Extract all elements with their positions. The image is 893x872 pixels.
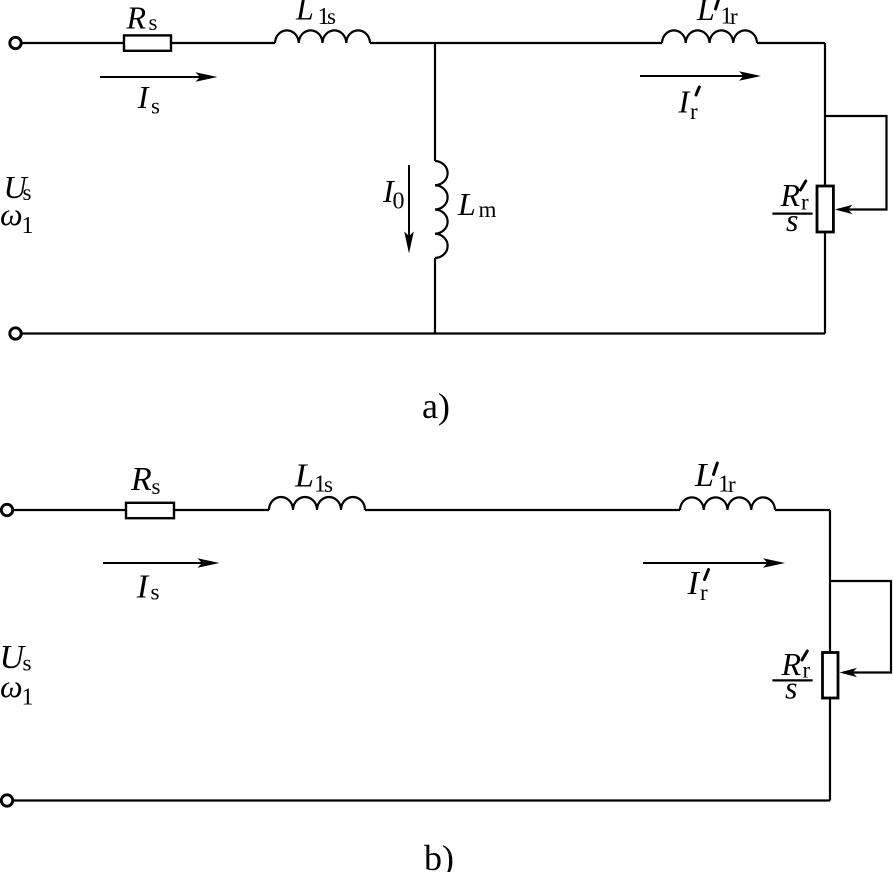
prime of R'_r (circuit a) xyxy=(801,181,806,190)
wire B top segment 4 xyxy=(775,509,830,511)
wire A top segment 1 xyxy=(22,42,124,44)
slider bracket wire (circuit a) xyxy=(825,116,887,210)
svg-text:0: 0 xyxy=(393,189,405,215)
wire B right branch upper xyxy=(829,510,831,653)
resistor R_s (circuit b) xyxy=(126,503,174,518)
arrowhead I_s (circuit b) xyxy=(198,558,220,568)
svg-text:b): b) xyxy=(424,838,454,872)
svg-text:ω: ω xyxy=(0,668,23,704)
prime of L'_1r (circuit b) xyxy=(714,463,718,475)
svg-text:s: s xyxy=(786,202,798,238)
svg-text:s: s xyxy=(151,94,160,119)
svg-text:s: s xyxy=(324,472,333,497)
svg-text:s: s xyxy=(23,180,32,205)
resistor R'_r/s (circuit a) xyxy=(817,186,833,232)
svg-text:r: r xyxy=(700,580,708,605)
current arrow I_s shaft (circuit b) xyxy=(103,562,213,564)
wire A middle branch lower xyxy=(434,258,436,334)
svg-text:L: L xyxy=(694,457,714,494)
inductor L_1s (circuit b) xyxy=(269,497,365,510)
current arrow I_s shaft (circuit a) xyxy=(100,76,213,78)
wire B top segment 2 xyxy=(174,509,269,511)
arrowhead slider (circuit b) xyxy=(839,668,857,677)
svg-text:s: s xyxy=(23,650,32,675)
svg-text:1: 1 xyxy=(22,213,34,239)
prime of I'_r (circuit b) xyxy=(705,570,709,580)
arrowhead slider (circuit a) xyxy=(835,205,853,214)
svg-text:I: I xyxy=(136,569,150,606)
svg-text:s: s xyxy=(327,4,336,29)
terminal B top-left xyxy=(1,504,12,515)
svg-text:I: I xyxy=(687,565,701,602)
wire A top segment 2 xyxy=(171,42,275,44)
current arrow I'_r shaft (circuit b) xyxy=(643,562,781,564)
current arrow I'_r shaft (circuit a) xyxy=(640,75,757,77)
svg-text:L: L xyxy=(696,0,715,27)
inductor L'_1r (circuit a) xyxy=(662,30,757,43)
svg-text:s: s xyxy=(785,670,797,706)
terminal A bottom-left xyxy=(10,328,21,339)
svg-text:R: R xyxy=(126,0,147,36)
svg-text:r: r xyxy=(728,472,736,497)
wire B right branch lower xyxy=(829,698,831,801)
arrowhead I_0 (circuit a) xyxy=(404,232,414,254)
fraction bar (circuit a) xyxy=(772,213,812,215)
svg-text:m: m xyxy=(479,197,497,222)
terminal A top-left xyxy=(10,37,21,48)
wire A bottom xyxy=(22,332,825,334)
svg-text:L: L xyxy=(294,458,314,495)
arrowhead I'_r (circuit a) xyxy=(739,71,761,81)
wire A top segment 4 xyxy=(757,42,825,44)
arrowhead I'_r (circuit b) xyxy=(763,558,785,568)
svg-text:1: 1 xyxy=(22,684,34,710)
inductor L'_1r (circuit b) xyxy=(680,497,775,510)
arrowhead I_s (circuit a) xyxy=(196,72,218,82)
wire B bottom xyxy=(13,799,830,801)
wire B top segment 3 xyxy=(365,509,680,511)
svg-text:ω: ω xyxy=(0,196,23,232)
svg-text:s: s xyxy=(151,580,160,605)
terminal B bottom-left xyxy=(1,795,12,806)
svg-text:L: L xyxy=(457,186,476,222)
svg-text:s: s xyxy=(149,10,158,35)
prime of I'_r (circuit a) xyxy=(696,87,699,95)
svg-text:r: r xyxy=(801,190,809,215)
svg-text:r: r xyxy=(803,658,811,683)
svg-text:I: I xyxy=(678,84,691,120)
svg-text:a): a) xyxy=(422,386,450,426)
svg-text:R: R xyxy=(130,461,152,498)
prime of R'_r (circuit b) xyxy=(802,651,807,660)
svg-text:r: r xyxy=(690,99,698,124)
inductor L_1s (circuit a) xyxy=(275,30,370,43)
wire A right branch upper xyxy=(824,43,826,186)
fraction bar (circuit b) xyxy=(772,679,812,681)
wire B top segment 1 xyxy=(13,509,126,511)
current arrow I_0 shaft (circuit a) xyxy=(408,165,410,249)
inductor L_m (circuit a) xyxy=(435,161,448,258)
resistor R'_r/s (circuit b) xyxy=(823,653,839,699)
wire A middle branch upper xyxy=(434,43,436,161)
svg-text:I: I xyxy=(137,79,150,115)
slider bracket wire (circuit b) xyxy=(830,581,891,673)
wire A top segment 3 xyxy=(370,42,662,44)
prime of L'_1r (circuit a) xyxy=(716,0,720,9)
svg-text:s: s xyxy=(152,474,161,499)
svg-text:r: r xyxy=(730,4,738,29)
resistor R_s (circuit a) xyxy=(124,35,171,50)
svg-text:L: L xyxy=(295,0,314,26)
wire A right branch lower xyxy=(824,232,826,334)
